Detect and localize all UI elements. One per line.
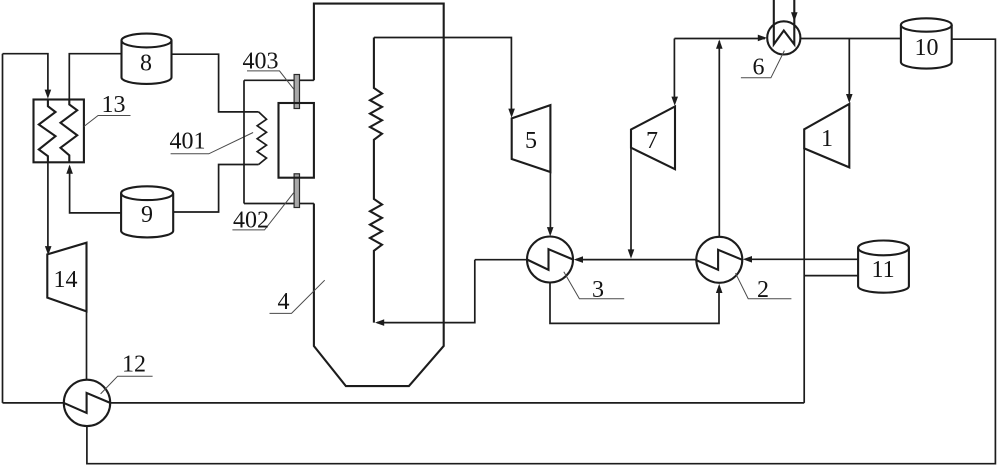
wire 402 line right [300, 203, 314, 205]
U13 right coil [61, 100, 78, 163]
turbine 1 [804, 104, 849, 167]
tank 11 [858, 241, 909, 256]
arrow into HX2 bottom [716, 284, 723, 293]
heat exchanger 12 [64, 380, 110, 426]
svg-text:1: 1 [821, 126, 833, 152]
arrow into HX2 right [743, 256, 752, 263]
label 401 leader [171, 133, 254, 154]
cooler 6 [767, 21, 800, 54]
arrow up into U13 bottom [66, 165, 73, 174]
wire coil feed from HX3 [377, 260, 475, 323]
wire turbine7 exhaust [630, 148, 632, 256]
wire HX2 top riser [718, 41, 720, 237]
arrow into turbine 7 [671, 97, 678, 106]
svg-text:4: 4 [278, 289, 290, 315]
arrow into coil bottom [375, 319, 384, 326]
wire tank8 to heater 401 [172, 54, 259, 112]
label 403 leader [247, 71, 294, 89]
turbine 5 [512, 105, 551, 172]
wire HX12 left [3, 402, 64, 404]
wire turbine14 exhaust to HX12 [86, 311, 88, 379]
svg-text:7: 7 [646, 128, 658, 154]
svg-text:10: 10 [915, 35, 939, 61]
wire 402 line left [244, 203, 294, 205]
svg-text:5: 5 [525, 128, 537, 154]
arrow coolant in [791, 12, 798, 21]
turbine 7 [631, 107, 675, 170]
wire tank11 to HX2 [746, 258, 859, 260]
wire turbine1 inlet [848, 39, 850, 100]
svg-text:401: 401 [170, 129, 206, 155]
heat exchanger 2 [696, 237, 742, 283]
label 3 leader [564, 272, 624, 299]
membrane 402 [294, 174, 299, 208]
wire main line HX2 to HX3 [576, 259, 696, 261]
wire HX3 bottom to HX2 bottom [550, 283, 719, 324]
svg-text:11: 11 [872, 257, 895, 283]
U13 left coil [39, 100, 56, 163]
wire turbine5 exhaust to HX3 [549, 172, 551, 234]
svg-text:12: 12 [122, 352, 146, 378]
svg-text:3: 3 [592, 277, 604, 303]
svg-text:8: 8 [140, 51, 152, 77]
arrow into HX3 top [547, 227, 554, 236]
wire top-left header into U13 [3, 54, 48, 95]
turbine 14 [47, 243, 86, 312]
wire U13 right coil up to tank 8 [69, 54, 121, 100]
arrow into turbine 5 [508, 109, 515, 118]
wire main top header [674, 38, 765, 40]
arrow up onto main header [716, 40, 723, 49]
heater coil 401 [257, 112, 266, 165]
wire 403 line left [244, 79, 294, 81]
label 12 leader [101, 376, 153, 394]
tank 8 [122, 34, 172, 48]
reaction chamber [279, 103, 314, 178]
wire coil top to turbine 5 [374, 38, 512, 115]
wire turbine7 inlet [673, 39, 675, 103]
boiler coil [370, 38, 382, 323]
wire cooler6 to tank10 [801, 38, 901, 40]
arrow turbine7 exhaust onto line [628, 249, 635, 258]
svg-text:6: 6 [753, 55, 765, 81]
svg-text:2: 2 [757, 277, 769, 303]
heat exchanger U13 box [34, 100, 84, 163]
arrow into cooler 6 left [758, 35, 767, 42]
svg-text:9: 9 [141, 202, 153, 228]
label 2 leader [736, 273, 792, 299]
svg-text:13: 13 [102, 92, 126, 118]
heat exchanger 3 [527, 237, 573, 283]
tank 10 [901, 18, 952, 31]
svg-text:14: 14 [54, 267, 78, 293]
arrow into HX3 right [574, 256, 583, 263]
label 13 leader [84, 116, 131, 127]
label 4 leader [270, 280, 325, 313]
membrane 403 [294, 75, 299, 109]
label 402 leader [232, 192, 294, 230]
arrow into turbine 1 [846, 94, 853, 103]
wire left outer riser [2, 54, 4, 403]
svg-text:403: 403 [243, 49, 279, 75]
wire U13 left coil down to turbine 14 [47, 162, 49, 252]
label 6 leader [741, 51, 785, 78]
furnace vessel 4 [314, 4, 444, 387]
wire turbine1 exhaust riser [803, 148, 805, 403]
svg-text:402: 402 [233, 208, 269, 234]
wire 403 line right [299, 79, 314, 81]
wire 401 to tank 9 [173, 165, 258, 213]
arrow into U13 top [45, 90, 52, 99]
wire bypass vertical [243, 80, 245, 203]
wire tank9 left to U13 bottom [70, 167, 122, 213]
arrow into turbine 14 [45, 246, 52, 255]
wire HX3 left outlet [475, 259, 527, 261]
tank 9 [121, 186, 173, 200]
wire tank11 lower outlet [804, 275, 858, 277]
cooler 6 coolant lines [774, 0, 795, 44]
wire HX12 right to riser [110, 402, 804, 404]
